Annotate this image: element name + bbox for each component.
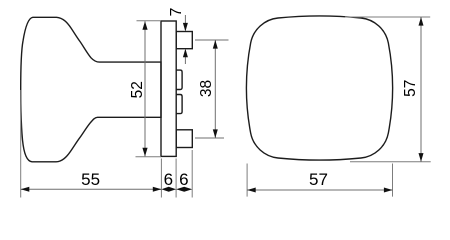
arrow 57 right bottom <box>419 153 424 162</box>
extension line peg right <box>191 150 193 198</box>
arrow 52 top <box>142 21 147 30</box>
svg-text:38: 38 <box>198 80 215 97</box>
svg-text:57: 57 <box>309 170 328 189</box>
arrow 57 bottom left <box>247 188 256 193</box>
dimension line 57 right <box>420 17 422 162</box>
svg-text:52: 52 <box>129 81 146 98</box>
arrow 7 bottom <box>184 50 186 64</box>
svg-text:6: 6 <box>164 170 173 189</box>
dimension line 57 bottom <box>247 189 392 191</box>
extension line 55 left <box>20 90 22 198</box>
arrow 57 right top <box>419 17 424 26</box>
knob side profile <box>21 17 161 162</box>
dimension line 38 <box>214 40 216 138</box>
extension line 57 right-top <box>345 16 430 18</box>
bottom peg <box>176 130 192 148</box>
arrow 52 bottom <box>142 148 147 157</box>
svg-text:55: 55 <box>81 170 100 189</box>
leader 38 top <box>195 39 229 41</box>
leader 38 bottom <box>195 137 224 139</box>
extension line 57 bottom-right <box>392 164 394 197</box>
middle tab 1 <box>176 70 182 89</box>
extension line plate right <box>175 159 177 198</box>
extension line 57 bottom-left <box>246 164 248 197</box>
knob front face squircle <box>246 16 392 160</box>
arrow 55 left <box>21 187 30 192</box>
svg-text:6: 6 <box>179 170 188 189</box>
dimension diamond 6 second <box>176 187 192 192</box>
middle tab 2 <box>176 95 182 114</box>
extension line 52 top <box>137 20 162 22</box>
top peg <box>176 32 192 49</box>
svg-text:7: 7 <box>168 7 185 16</box>
svg-text:57: 57 <box>402 80 419 97</box>
rose plate <box>161 21 176 156</box>
arrow 57 bottom right <box>384 188 393 193</box>
arrow 7 top <box>184 15 186 30</box>
dimension diamond 6 first <box>161 187 176 192</box>
extension line plate left <box>160 159 162 198</box>
dimension line 55 <box>21 188 162 190</box>
arrow 55 right <box>153 187 162 192</box>
dimension line 52 <box>144 21 146 156</box>
extension line 52 bottom <box>136 156 162 158</box>
extension line 57 right-bottom <box>350 161 431 163</box>
arrow 38 bottom <box>213 129 218 138</box>
arrow 38 top <box>213 40 218 49</box>
